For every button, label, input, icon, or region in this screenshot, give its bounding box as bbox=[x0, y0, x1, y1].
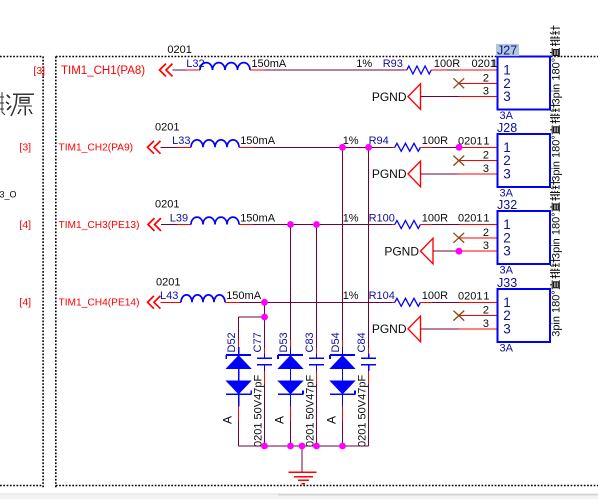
svg-text:1: 1 bbox=[483, 213, 489, 225]
svg-text:3pin 180°: 3pin 180° bbox=[551, 58, 563, 105]
svg-text:L32: L32 bbox=[186, 58, 204, 70]
svg-text:3A: 3A bbox=[500, 265, 514, 277]
svg-text:R93: R93 bbox=[383, 58, 403, 70]
svg-text:3pin 180°: 3pin 180° bbox=[551, 212, 563, 259]
svg-text:D54: D54 bbox=[330, 332, 342, 352]
svg-text:3: 3 bbox=[483, 240, 489, 252]
svg-text:0201: 0201 bbox=[155, 121, 179, 133]
svg-text:0201 50V47pF: 0201 50V47pF bbox=[305, 375, 317, 447]
svg-text:TIM1_CH2(PA9): TIM1_CH2(PA9) bbox=[59, 143, 134, 154]
svg-text:150mA: 150mA bbox=[240, 135, 276, 147]
svg-text:A: A bbox=[325, 416, 339, 424]
svg-text:C77: C77 bbox=[252, 332, 264, 352]
svg-text:2: 2 bbox=[483, 227, 489, 239]
svg-text:TIM1_CH4(PE14): TIM1_CH4(PE14) bbox=[59, 298, 140, 309]
svg-text:D53: D53 bbox=[278, 332, 290, 352]
svg-text:3A: 3A bbox=[500, 342, 514, 354]
svg-text:0201: 0201 bbox=[167, 44, 191, 56]
svg-text:J33: J33 bbox=[497, 276, 517, 290]
svg-text:PGND: PGND bbox=[372, 322, 407, 336]
svg-text:3: 3 bbox=[503, 244, 511, 259]
svg-text:[3]: [3] bbox=[33, 65, 45, 77]
svg-text:2: 2 bbox=[483, 305, 489, 317]
svg-text:R104: R104 bbox=[369, 290, 395, 302]
svg-text:100R: 100R bbox=[422, 290, 448, 302]
svg-text:150mA: 150mA bbox=[240, 212, 276, 224]
svg-text:3: 3 bbox=[503, 167, 511, 182]
svg-text:PGND: PGND bbox=[372, 90, 407, 104]
svg-text:100R: 100R bbox=[422, 135, 448, 147]
svg-text:L39: L39 bbox=[170, 212, 188, 224]
svg-text:1%: 1% bbox=[343, 212, 359, 224]
svg-text:R100: R100 bbox=[369, 212, 395, 224]
svg-text:C84: C84 bbox=[356, 332, 368, 352]
svg-text:0201: 0201 bbox=[156, 276, 180, 288]
svg-text:[3]: [3] bbox=[19, 142, 31, 154]
svg-text:0201: 0201 bbox=[155, 199, 179, 211]
svg-text:[4]: [4] bbox=[19, 297, 31, 309]
svg-text:3pin 180°: 3pin 180° bbox=[551, 290, 563, 337]
svg-text:100R: 100R bbox=[434, 58, 460, 70]
svg-text:3: 3 bbox=[503, 322, 511, 337]
svg-text:TIM1_CH1(PA8): TIM1_CH1(PA8) bbox=[61, 65, 145, 77]
svg-text:0201: 0201 bbox=[472, 58, 496, 70]
svg-text:150mA: 150mA bbox=[226, 290, 262, 302]
svg-text:3_O: 3_O bbox=[0, 190, 17, 200]
svg-text:3pin 180°: 3pin 180° bbox=[551, 135, 563, 182]
svg-text:3: 3 bbox=[483, 318, 489, 330]
svg-text:A: A bbox=[273, 416, 287, 424]
svg-text:L33: L33 bbox=[172, 135, 190, 147]
svg-text:1: 1 bbox=[483, 135, 489, 147]
svg-text:0201 50V47pF: 0201 50V47pF bbox=[253, 375, 265, 447]
svg-text:J27: J27 bbox=[497, 44, 517, 58]
svg-text:150mA: 150mA bbox=[251, 58, 287, 70]
svg-text:TIM1_CH3(PE13): TIM1_CH3(PE13) bbox=[59, 220, 140, 231]
svg-text:D52: D52 bbox=[226, 332, 238, 352]
svg-text:3: 3 bbox=[483, 86, 489, 98]
svg-text:J28: J28 bbox=[497, 121, 517, 135]
svg-text:2: 2 bbox=[483, 150, 489, 162]
svg-text:0201: 0201 bbox=[458, 213, 482, 225]
svg-text:L43: L43 bbox=[160, 290, 178, 302]
svg-text:J32: J32 bbox=[497, 198, 517, 212]
svg-text:PGND: PGND bbox=[384, 244, 419, 258]
svg-text:3: 3 bbox=[503, 89, 511, 104]
svg-text:C83: C83 bbox=[304, 332, 316, 352]
svg-text:R94: R94 bbox=[369, 135, 389, 147]
svg-text:1%: 1% bbox=[343, 290, 359, 302]
svg-text:1: 1 bbox=[483, 290, 489, 302]
svg-text:2: 2 bbox=[483, 72, 489, 84]
svg-text:0201 50V47pF: 0201 50V47pF bbox=[357, 375, 369, 447]
svg-text:A: A bbox=[221, 416, 235, 424]
svg-text:3: 3 bbox=[483, 163, 489, 175]
svg-text:[4]: [4] bbox=[19, 219, 31, 231]
svg-text:100R: 100R bbox=[422, 212, 448, 224]
svg-text:1%: 1% bbox=[356, 58, 372, 70]
svg-text:0201: 0201 bbox=[458, 290, 482, 302]
svg-text:PGND: PGND bbox=[372, 167, 407, 181]
